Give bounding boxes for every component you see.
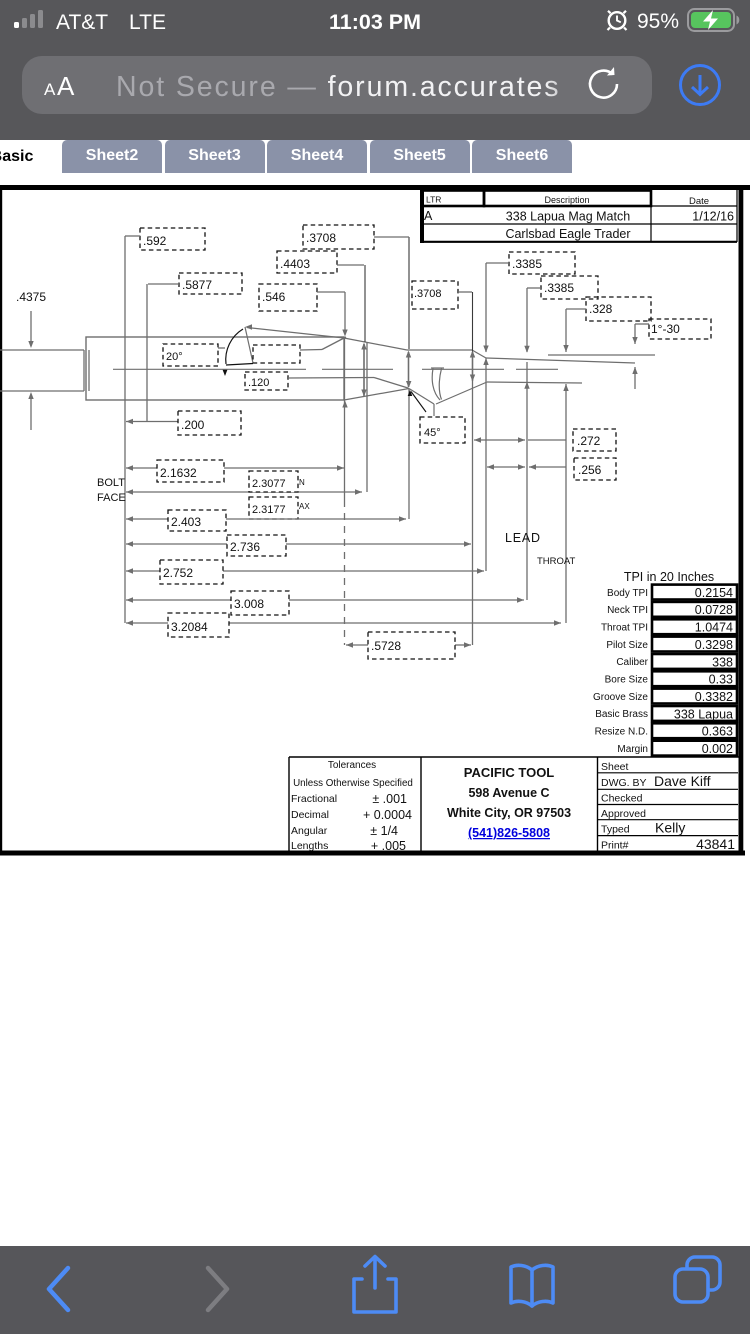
svg-text:PACIFIC TOOL: PACIFIC TOOL — [464, 765, 555, 780]
svg-text:Carlsbad Eagle Trader: Carlsbad Eagle Trader — [505, 227, 630, 241]
svg-text:Typed: Typed — [601, 824, 630, 836]
dimension .200 — [126, 411, 241, 435]
svg-text:.546: .546 — [262, 290, 286, 304]
dia arrow — [342, 401, 347, 408]
svg-text:0.3382: 0.3382 — [695, 690, 733, 704]
svg-text:Sheet: Sheet — [601, 761, 629, 773]
TPI table — [593, 570, 737, 756]
label .328 — [586, 297, 651, 321]
svg-text:0.0728: 0.0728 — [695, 603, 733, 617]
extension line x635 — [634, 324, 636, 344]
svg-text:.4403: .4403 — [280, 257, 310, 271]
45 deg chamfer — [409, 389, 434, 405]
label .5877 — [179, 273, 242, 294]
tab Sheet6 — [472, 140, 572, 173]
svg-text:TPI in 20 Inches: TPI in 20 Inches — [624, 570, 714, 584]
empty label box — [253, 345, 300, 363]
dimension 2.736 — [126, 535, 471, 556]
extension line x367 — [366, 342, 368, 492]
alarm icon — [608, 11, 627, 30]
svg-text:Pilot Size: Pilot Size — [606, 640, 648, 651]
extension line x472 — [472, 292, 474, 352]
technical drawing — [0, 0, 750, 900]
svg-text:.200: .200 — [181, 418, 205, 432]
reamer shank — [0, 349, 84, 351]
extension line x125 — [124, 236, 126, 623]
dimension 2.3077 — [126, 471, 362, 495]
share icon — [354, 1257, 396, 1313]
dia arrow — [406, 351, 411, 358]
reload icon — [590, 67, 617, 98]
tabs icon — [675, 1257, 720, 1302]
lead transition — [472, 350, 486, 358]
svg-text:Bore Size: Bore Size — [605, 675, 649, 686]
svg-text:.4375: .4375 — [16, 290, 46, 304]
drawing sheet bottom border — [0, 851, 745, 856]
svg-text:Kelly: Kelly — [655, 820, 685, 836]
reamer body — [86, 337, 344, 400]
throat bottom line — [487, 382, 582, 383]
label .3708 first — [303, 225, 374, 249]
svg-text:Margin: Margin — [617, 744, 648, 755]
svg-text:Throat TPI: Throat TPI — [601, 622, 648, 633]
svg-text:FACE: FACE — [97, 492, 126, 504]
svg-text:2.1632: 2.1632 — [160, 466, 197, 480]
svg-text:Groove Size: Groove Size — [593, 692, 648, 703]
dia arrow — [470, 351, 475, 358]
back chevron — [49, 1268, 68, 1310]
bookmarks icon — [511, 1265, 553, 1306]
active tab Basic — [0, 140, 64, 179]
dia arrow — [563, 384, 568, 391]
svg-text:.272: .272 — [577, 434, 601, 448]
svg-text:.328: .328 — [589, 302, 613, 316]
neck line — [407, 349, 472, 351]
url pill — [22, 56, 652, 114]
svg-text:Unless Otherwise Specified: Unless Otherwise Specified — [293, 778, 413, 789]
extension line x409 — [408, 237, 410, 349]
dia arrow — [524, 382, 529, 389]
bottom toolbar — [0, 1246, 750, 1334]
svg-text:LTR: LTR — [426, 195, 441, 205]
svg-text:N: N — [299, 478, 305, 487]
svg-text:43841: 43841 — [696, 836, 735, 852]
dia arrow — [406, 381, 411, 388]
svg-text:2.403: 2.403 — [171, 515, 201, 529]
extension line x527 — [526, 288, 528, 352]
dia arrow — [524, 346, 529, 353]
label 45 deg — [420, 417, 465, 443]
dimension 2.3177 — [249, 497, 310, 519]
svg-text:.3385: .3385 — [512, 257, 542, 271]
tab Sheet5 — [370, 140, 470, 173]
label .3385 first — [509, 252, 575, 274]
svg-text:.256: .256 — [578, 463, 602, 477]
svg-text:LEAD: LEAD — [505, 531, 541, 545]
dia arrow — [563, 345, 568, 352]
svg-text:Date: Date — [689, 196, 709, 207]
dia arrow — [361, 390, 366, 397]
svg-text:Caliber: Caliber — [616, 657, 648, 668]
label .3385 second — [541, 276, 598, 299]
svg-text:White City, OR 97503: White City, OR 97503 — [447, 806, 571, 820]
svg-text:+ .005: + .005 — [371, 839, 406, 853]
tab Sheet2 — [62, 140, 162, 173]
extension line x147 — [146, 284, 148, 422]
20 deg arc — [226, 329, 243, 364]
sheet tabs — [0, 140, 750, 180]
svg-text:0.3298: 0.3298 — [695, 638, 733, 652]
dia arrow — [632, 337, 637, 344]
svg-text:± .001: ± .001 — [372, 792, 407, 806]
dimension 3.2084 — [126, 613, 561, 637]
dia arrow — [483, 346, 488, 353]
svg-text:2.3177: 2.3177 — [252, 504, 286, 516]
pilot slant — [436, 382, 487, 404]
chamber shoulder apex line — [247, 328, 344, 339]
svg-text:3.008: 3.008 — [234, 597, 264, 611]
svg-text:45°: 45° — [424, 427, 441, 439]
bore reference line — [548, 354, 655, 356]
label 20 deg — [163, 344, 218, 366]
dimension 2.403 — [126, 510, 406, 531]
svg-text:0.33: 0.33 — [709, 673, 733, 687]
svg-text:0.2154: 0.2154 — [695, 586, 733, 600]
svg-text:Fractional: Fractional — [291, 793, 337, 805]
apex arrowhead — [245, 324, 252, 329]
extension line x364 — [364, 265, 366, 342]
svg-text:338 Lapua: 338 Lapua — [674, 707, 733, 721]
svg-text:Tolerances: Tolerances — [328, 760, 376, 771]
svg-text:1/12/16: 1/12/16 — [692, 210, 734, 224]
flute curve — [432, 369, 440, 401]
extension line x486 — [485, 263, 487, 352]
dimension 3.008 — [126, 591, 524, 615]
dimension .256 — [487, 458, 616, 480]
svg-text:Decimal: Decimal — [291, 809, 329, 821]
status bar — [0, 0, 750, 45]
svg-text:± 1/4: ± 1/4 — [370, 824, 398, 838]
svg-text:.592: .592 — [143, 234, 167, 248]
20 deg leg — [245, 327, 253, 363]
dimension 2.752 — [126, 560, 484, 584]
svg-text:A: A — [424, 209, 433, 223]
dia arrow — [483, 358, 488, 365]
svg-text:3.2084: 3.2084 — [171, 620, 208, 634]
svg-text:2.736: 2.736 — [230, 540, 260, 554]
download circle button — [681, 66, 720, 105]
svg-text:Basic Brass: Basic Brass — [595, 709, 648, 720]
tail vertical — [433, 404, 435, 416]
svg-text:(541)826-5808: (541)826-5808 — [468, 826, 550, 840]
svg-text:.5728: .5728 — [371, 639, 401, 653]
drawing sheet top border — [0, 185, 750, 190]
svg-text:.3708: .3708 — [306, 231, 336, 245]
svg-text:Approved: Approved — [601, 808, 646, 820]
svg-text:Neck TPI: Neck TPI — [607, 605, 648, 616]
svg-text:.5877: .5877 — [182, 278, 212, 292]
svg-text:+ 0.0004: + 0.0004 — [363, 808, 412, 822]
svg-text:0.363: 0.363 — [702, 725, 733, 739]
svg-text:Lengths: Lengths — [291, 840, 328, 852]
dimension .5728 — [346, 632, 471, 659]
svg-text:.3385: .3385 — [544, 281, 574, 295]
bottom shoulder slant — [344, 389, 409, 401]
extension line x344 — [344, 338, 346, 500]
45 deg arrow — [408, 390, 413, 396]
svg-text:2.752: 2.752 — [163, 566, 193, 580]
svg-text:0.002: 0.002 — [702, 742, 733, 756]
dimension 2.1632 — [126, 460, 344, 482]
centerline — [113, 368, 306, 370]
svg-text:Body TPI: Body TPI — [607, 588, 648, 599]
svg-text:.3708: .3708 — [414, 288, 442, 300]
dia arrow — [361, 343, 366, 350]
throat taper top — [486, 358, 635, 363]
label .120 — [245, 372, 288, 390]
fade over text end — [545, 59, 593, 111]
svg-text:BOLT: BOLT — [97, 477, 125, 489]
svg-text:Dave Kiff: Dave Kiff — [654, 773, 711, 789]
svg-text:1°-30: 1°-30 — [651, 322, 680, 336]
svg-text:Description: Description — [544, 195, 589, 205]
svg-text:THROAT: THROAT — [537, 556, 576, 567]
label .3708 second — [412, 281, 458, 309]
svg-text:.120: .120 — [248, 377, 269, 389]
svg-text:338: 338 — [712, 655, 733, 669]
svg-text:Print#: Print# — [601, 840, 629, 852]
extension line x566 — [565, 309, 567, 352]
svg-text:598 Avenue C: 598 Avenue C — [468, 786, 549, 800]
forward chevron — [208, 1268, 227, 1310]
safari header background — [0, 0, 750, 140]
.4375 arrows — [30, 311, 32, 341]
svg-text:AX: AX — [299, 502, 310, 511]
svg-text:20°: 20° — [166, 351, 183, 363]
label .592 — [140, 228, 205, 250]
shoulder line — [344, 338, 407, 350]
drawing sheet right border — [739, 190, 744, 851]
battery icon — [688, 9, 739, 31]
label .546 — [259, 284, 317, 311]
dimension .272 — [474, 429, 616, 451]
drawing sheet left border — [0, 190, 2, 851]
svg-text:Resize N.D.: Resize N.D. — [595, 727, 648, 738]
signal bars — [14, 10, 43, 28]
arc bottom chord — [226, 364, 253, 366]
svg-text:1.0474: 1.0474 — [695, 621, 733, 635]
dia arrow — [632, 367, 637, 374]
svg-text:Angular: Angular — [291, 825, 328, 837]
dia arrow — [342, 330, 347, 337]
tab Sheet4 — [267, 140, 367, 173]
tab Sheet3 — [165, 140, 265, 173]
svg-text:Checked: Checked — [601, 793, 643, 805]
svg-text:338 Lapua Mag Match: 338 Lapua Mag Match — [506, 210, 630, 224]
title block — [289, 757, 740, 853]
arc small arrow — [222, 369, 227, 376]
label 1-30 — [649, 319, 711, 339]
svg-text:DWG. BY: DWG. BY — [601, 777, 647, 789]
label .4403 — [277, 251, 337, 273]
svg-text:2.3077: 2.3077 — [252, 478, 286, 490]
revision table — [420, 190, 737, 243]
dia arrow — [470, 375, 475, 382]
